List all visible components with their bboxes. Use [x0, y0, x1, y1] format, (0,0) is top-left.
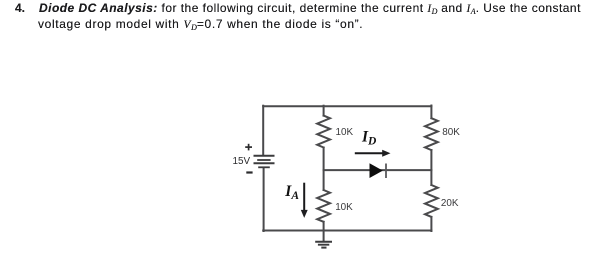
- current arrow IA: [301, 183, 308, 218]
- diode D1: [370, 163, 387, 178]
- wire ground stub: [323, 231, 325, 242]
- svg-text:15V: 15V: [233, 156, 251, 167]
- wire middle bottom stub: [323, 222, 325, 231]
- wire mid horizontal (diode net): [324, 169, 432, 171]
- svg-text:80K: 80K: [442, 127, 460, 138]
- battery plus sign: [245, 144, 252, 151]
- svg-text:10K: 10K: [336, 127, 354, 138]
- resistor R2 10K bottom-middle: [317, 190, 330, 222]
- wire left upper: [262, 106, 264, 156]
- wire left lower: [263, 168, 265, 232]
- svg-text:ID: ID: [361, 128, 377, 147]
- battery V1 15V: [254, 156, 275, 168]
- wire right mid: [430, 150, 432, 185]
- wire right upper stub: [430, 106, 432, 119]
- resistor R4 20K right-bottom: [425, 185, 438, 217]
- resistor R1 10K top-middle: [317, 116, 330, 148]
- ground: [315, 242, 332, 248]
- resistor R3 80K right-top: [425, 118, 438, 150]
- svg-text:10K: 10K: [335, 202, 353, 213]
- svg-text:20K: 20K: [441, 198, 459, 209]
- wire middle mid: [323, 148, 325, 191]
- current arrow ID: [355, 150, 391, 157]
- wire right lower stub: [430, 217, 432, 231]
- svg-text:IA: IA: [284, 183, 299, 202]
- problem statement list number: [15, 1, 25, 15]
- battery minus sign: [246, 171, 252, 173]
- problem statement line 1: [39, 1, 581, 16]
- wire bottom: [263, 230, 431, 232]
- wire middle top stub: [323, 106, 325, 116]
- wire top: [263, 105, 431, 107]
- problem statement line 2: [38, 17, 363, 32]
